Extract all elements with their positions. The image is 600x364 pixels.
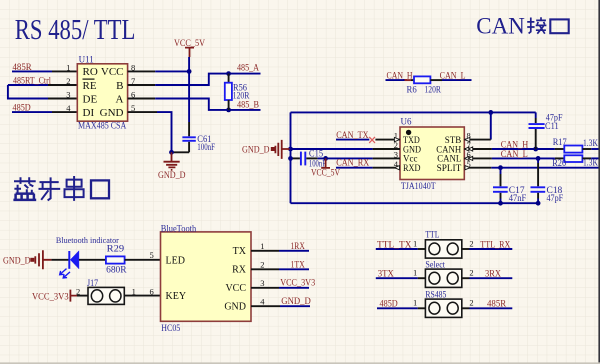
svg-text:VCC: VCC (225, 283, 246, 294)
svg-text:1: 1 (132, 286, 136, 296)
svg-text:TTL_TX: TTL_TX (377, 239, 412, 249)
svg-text:CAN_L: CAN_L (440, 70, 466, 80)
svg-text:U11: U11 (79, 54, 94, 64)
power port GND_D (LED) (31, 250, 51, 269)
svg-text:CAN_L: CAN_L (501, 149, 528, 159)
svg-text:TJA1040T: TJA1040T (401, 181, 436, 191)
IC U6 TJA1040T body (400, 127, 464, 180)
wire J17 to KEY (124, 295, 160, 297)
capacitor C18 (537, 158, 539, 163)
wire CAN_RX (336, 167, 373, 169)
title CAN接口 (476, 13, 568, 38)
pin 3 Vcc (373, 157, 400, 159)
power port VCC_5V (CAN) (321, 158, 330, 168)
svg-text:TTL_RX: TTL_RX (480, 239, 510, 249)
svg-text:2: 2 (66, 76, 70, 86)
wire GND_D to pin2 (291, 148, 373, 150)
svg-text:120R: 120R (425, 85, 441, 95)
svg-text:485D: 485D (13, 103, 32, 113)
svg-text:SPLIT: SPLIT (437, 163, 462, 173)
svg-text:VCC_3V3: VCC_3V3 (32, 293, 69, 303)
svg-text:100nF: 100nF (197, 142, 215, 152)
no-ERC cross (369, 137, 375, 143)
svg-text:120R: 120R (233, 91, 250, 101)
svg-text:2: 2 (469, 238, 473, 248)
wire bottom rail (291, 202, 540, 204)
svg-text:3: 3 (260, 278, 264, 288)
junction (187, 69, 192, 74)
svg-text:CAN_H: CAN_H (387, 70, 413, 80)
pin 4 RXD (373, 167, 400, 169)
svg-text:2: 2 (76, 287, 80, 297)
resistor R20 (555, 157, 564, 159)
wire CAN_TX (336, 139, 369, 141)
pin 8 VCC (128, 70, 156, 72)
svg-text:1: 1 (413, 238, 417, 248)
ground GND_D (164, 152, 180, 170)
svg-text:485_A: 485_A (237, 63, 259, 73)
svg-text:CAN: CAN (476, 13, 525, 38)
wire stub red (405, 79, 412, 81)
svg-text:TX: TX (233, 246, 247, 257)
svg-text:RO: RO (83, 66, 98, 78)
pin 1 RO (52, 70, 77, 72)
pin 5 GND (128, 111, 157, 113)
svg-text:CAN_TX: CAN_TX (336, 130, 369, 140)
svg-text:GND_D: GND_D (281, 296, 311, 306)
pin 2 GND (373, 148, 400, 150)
pin 8 STB (464, 139, 491, 141)
pin 4 GND (251, 305, 280, 307)
junction (169, 150, 174, 155)
svg-text:R17: R17 (553, 137, 567, 147)
capacitor C17 (500, 168, 502, 174)
pin 6 A (128, 98, 156, 100)
svg-text:RE: RE (83, 80, 97, 92)
svg-text:R29: R29 (107, 243, 125, 253)
svg-text:RS485: RS485 (425, 289, 446, 299)
svg-text:LED: LED (166, 255, 185, 266)
svg-text:TTL: TTL (425, 229, 439, 239)
svg-text:DI: DI (83, 107, 95, 119)
svg-text:3TX: 3TX (378, 269, 394, 279)
svg-text:MAX485 CSA: MAX485 CSA (78, 121, 127, 131)
wire A down to 485_B (155, 99, 260, 110)
capacitor C11 (535, 112, 537, 118)
svg-text:R6: R6 (407, 85, 418, 95)
IC U11 MAX485 body (77, 64, 127, 121)
svg-text:BlueTooth: BlueTooth (161, 223, 197, 233)
svg-text:A: A (116, 94, 124, 106)
svg-text:47nF: 47nF (509, 193, 527, 203)
svg-text:3: 3 (66, 90, 70, 100)
svg-text:C11: C11 (545, 121, 559, 131)
junction (488, 110, 493, 115)
wire C61 to gnd node (172, 151, 190, 153)
svg-text:R20: R20 (552, 158, 566, 168)
svg-text:GND_D: GND_D (158, 171, 186, 181)
svg-text:6: 6 (150, 287, 154, 297)
resistor R56 (228, 74, 230, 83)
pin 4 DI (52, 111, 77, 113)
pin 5 SPLIT (464, 167, 491, 169)
svg-text:VCC: VCC (101, 66, 124, 78)
svg-text:1RX: 1RX (291, 241, 306, 251)
pin 7 B (128, 84, 156, 86)
wire pin8 to VCC rail (155, 70, 189, 72)
svg-text:1: 1 (413, 298, 417, 308)
svg-text:C15: C15 (309, 149, 324, 159)
wire CAN_L (442, 79, 472, 81)
svg-text:VCC_5V: VCC_5V (311, 168, 340, 178)
svg-text:5: 5 (150, 250, 154, 260)
svg-text:2: 2 (260, 259, 264, 269)
svg-text:1: 1 (413, 268, 417, 278)
wire 485D to U11.4 (12, 111, 52, 113)
svg-text:RS 485/ TTL: RS 485/ TTL (15, 14, 136, 46)
pin 6 CANL (464, 157, 492, 159)
connector J17 (77, 295, 88, 297)
wire RE-DE tie loop (8, 85, 48, 99)
svg-text:GND: GND (224, 302, 246, 313)
junction (498, 165, 503, 170)
svg-text:485R: 485R (487, 299, 506, 309)
svg-text:GND_D: GND_D (3, 256, 31, 266)
pin 2 RE (48, 84, 77, 86)
wire B up to 485_A (155, 74, 260, 85)
svg-text:1: 1 (66, 62, 70, 72)
junction (288, 156, 293, 161)
svg-text:CAN_RX: CAN_RX (336, 157, 369, 167)
svg-text:485_B: 485_B (237, 99, 259, 109)
svg-text:485D: 485D (380, 299, 399, 309)
svg-text:RXD: RXD (403, 163, 421, 173)
wire GND down (157, 112, 172, 152)
svg-text:2: 2 (469, 268, 473, 278)
power port GND_D (CAN) (272, 140, 290, 159)
pin 3 VCC (251, 287, 279, 289)
svg-text:GND: GND (100, 107, 124, 119)
resistor R17 (555, 148, 564, 150)
svg-text:680R: 680R (106, 265, 127, 275)
pin1 dot (406, 130, 411, 135)
junction (226, 108, 231, 113)
wire CAN_H (386, 79, 405, 81)
wire left vertical gnd loop (290, 112, 292, 203)
module HC05 body (161, 232, 252, 321)
svg-text:1: 1 (260, 241, 264, 251)
LED D? (51, 259, 68, 261)
svg-text:B: B (116, 80, 123, 92)
svg-text:VCC_3V3: VCC_3V3 (280, 277, 315, 287)
junction (536, 156, 541, 161)
window bottom edge (0, 362, 600, 364)
svg-text:U6: U6 (401, 117, 412, 127)
wire Vcc (317, 157, 372, 159)
junction (226, 71, 231, 76)
svg-text:47pF: 47pF (547, 193, 564, 203)
wire VCC vertical (188, 57, 190, 122)
pin 1 TX (251, 250, 279, 252)
junction (288, 147, 293, 152)
resistor R6 (411, 79, 414, 81)
svg-text:KEY: KEY (166, 291, 187, 302)
wire SPLIT row (491, 167, 600, 169)
svg-text:GND_D: GND_D (242, 146, 270, 156)
resistor R29 (106, 256, 125, 263)
svg-text:RX: RX (232, 265, 247, 276)
svg-text:485R: 485R (13, 62, 32, 72)
window right edge (598, 0, 600, 364)
svg-text:3RX: 3RX (485, 269, 501, 279)
svg-text:485RT_Ctrl: 485RT_Ctrl (13, 76, 51, 86)
pin 1 TXD (375, 139, 400, 141)
svg-text:4: 4 (260, 296, 265, 306)
svg-text:100nF: 100nF (309, 158, 326, 168)
pin 3 DE (48, 98, 77, 100)
pin 2 RX (251, 268, 279, 270)
svg-text:2: 2 (469, 298, 473, 308)
junction (533, 147, 538, 152)
capacitor C61 (188, 122, 190, 136)
junction (498, 201, 503, 206)
capacitor C15 (292, 157, 300, 159)
wire STB drop (490, 112, 492, 139)
svg-text:1TX: 1TX (291, 260, 306, 270)
svg-text:1.3K: 1.3K (583, 158, 598, 168)
wire 485RT_Ctrl to U11.2 (8, 84, 48, 86)
wire 485R to U11.1 (12, 70, 52, 72)
title 蓝牙串口 (13, 176, 109, 201)
svg-text:HC05: HC05 (161, 323, 180, 333)
wire top rail (291, 111, 536, 113)
wire CANL row (492, 157, 555, 159)
svg-text:Select: Select (425, 259, 445, 269)
svg-text:1.3K: 1.3K (583, 138, 598, 148)
wire CANH row (492, 148, 555, 150)
pin 7 CANH (464, 148, 492, 150)
svg-text:DE: DE (83, 94, 98, 106)
